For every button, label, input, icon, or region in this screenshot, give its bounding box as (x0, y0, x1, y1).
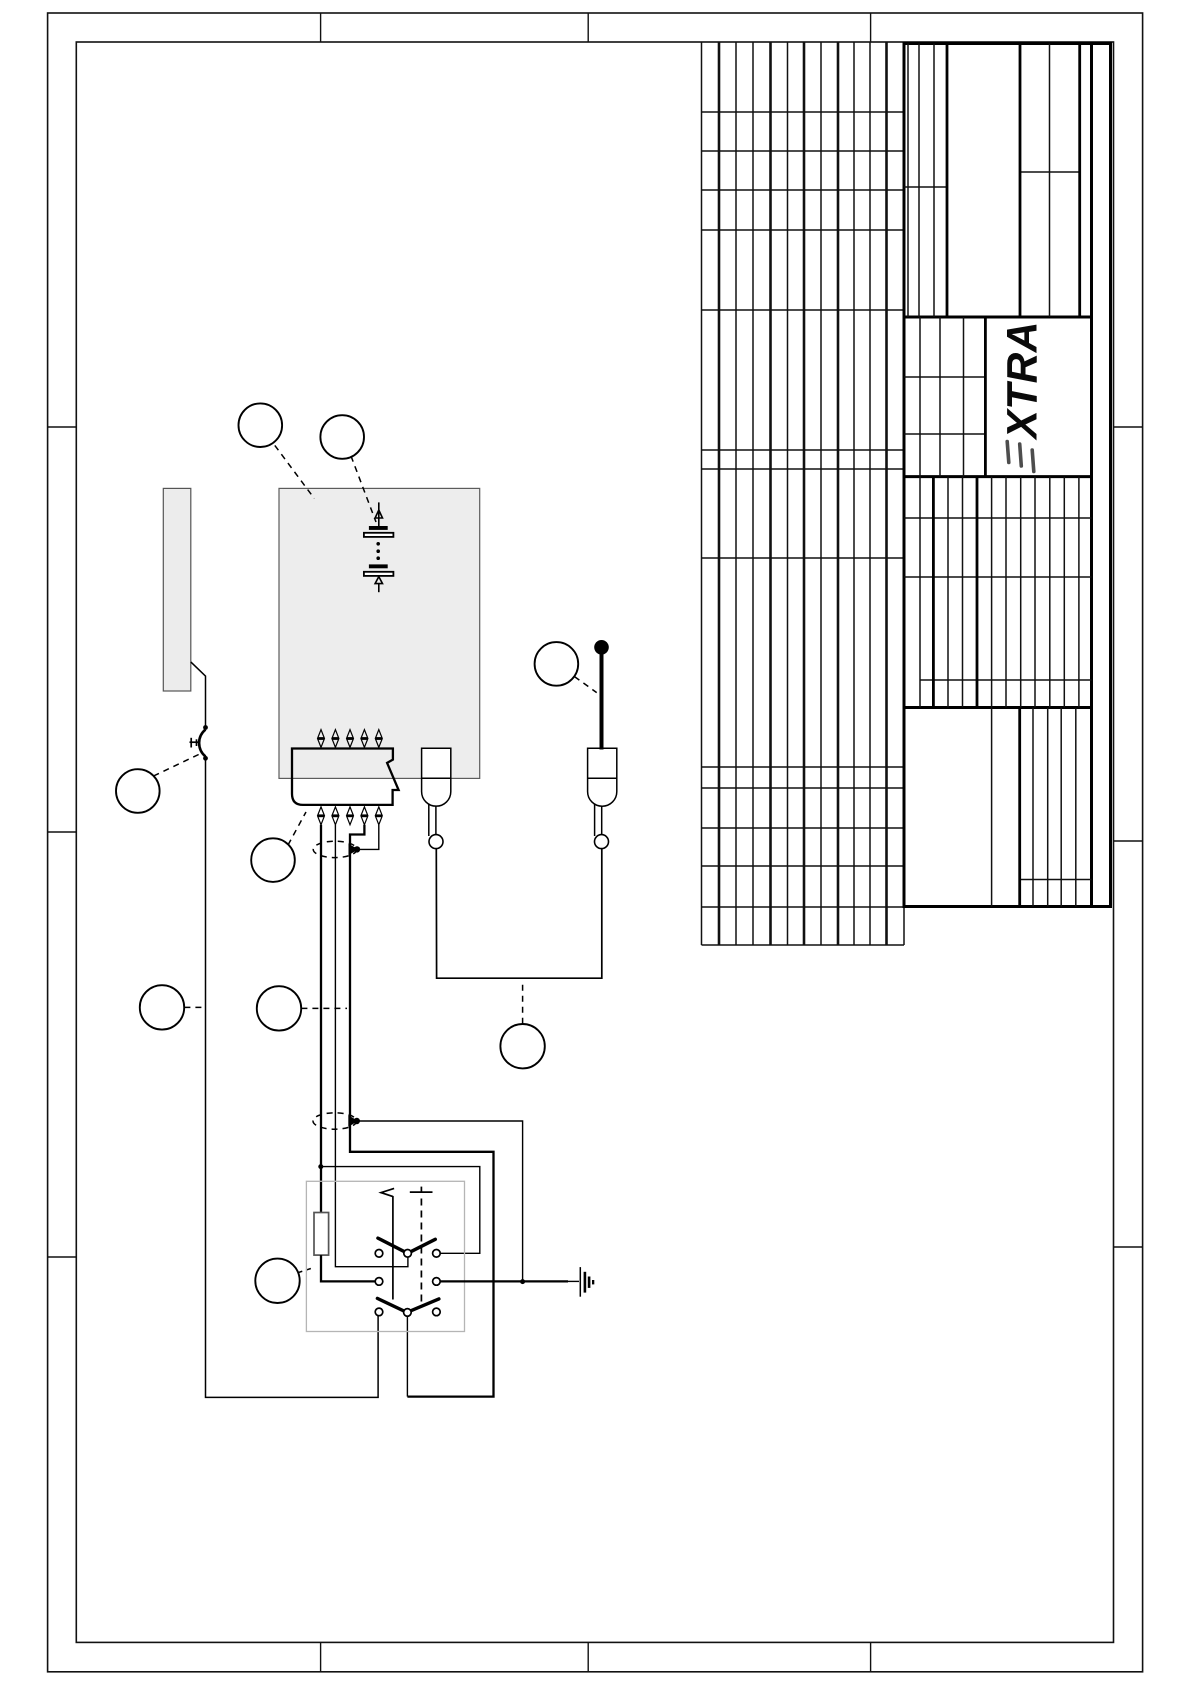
title block section 1 internals (904, 44, 1080, 318)
harness marker 2 (dashed ellipse with arrow) (313, 1113, 357, 1129)
upper lever (switch blade) (378, 1238, 435, 1253)
title block section 2 (logo section) internals (904, 317, 985, 477)
wire W1 (thick) from pin1 to resistor (320, 825, 322, 1213)
title block section 3 internals (904, 477, 1092, 708)
switch contacts (375, 1250, 440, 1317)
inner loop wire: junction to upper-right contact (321, 1167, 480, 1254)
callout circle 7 (257, 986, 301, 1030)
connector pins bottom row (318, 807, 383, 825)
wire W4: pin4 steps left then down, across and down to bottom pivot (350, 825, 494, 1397)
knob (black ball) with stem (594, 640, 609, 655)
fold marks top edge (321, 13, 871, 42)
lever switch (plunger) (190, 662, 206, 757)
title block section 4 internals (992, 708, 1092, 907)
wire: harness 2 to ground bus (358, 1121, 522, 1282)
panel (tall grey rectangle) (163, 488, 191, 691)
wiring list table : horizontal rules (702, 112, 905, 945)
callout circle 9 (255, 1259, 299, 1303)
fold marks bottom edge (321, 1642, 871, 1671)
callout circle 6 (140, 985, 184, 1029)
control module (grey rectangle) (279, 488, 480, 778)
leader 9 (298, 1268, 315, 1273)
title block internal thick vertical: right narrow strip (1090, 44, 1093, 907)
resistor (314, 1213, 329, 1256)
wire: lever switch down and along bottom to switch contact (206, 760, 379, 1397)
wire W2 (thin) pin2 to upper lever pivot (335, 825, 408, 1267)
ground symbol (579, 1267, 581, 1297)
switch actuator T-bar with dashed link (410, 1187, 433, 1303)
wire W5: pin5 to harness point (358, 825, 379, 850)
title block outer border (904, 44, 1111, 907)
callout circle 4 (116, 769, 160, 813)
switch actuator arrow (381, 1188, 394, 1299)
harness marker 1 (dashed ellipse with arrow) (313, 841, 357, 857)
XTRA logo (rotated) (1000, 321, 1047, 440)
connector block (292, 749, 399, 805)
fold marks left edge (48, 427, 77, 1257)
callout circle 5 (251, 838, 295, 882)
connector pins top row (318, 730, 383, 748)
callout circle 2 (320, 415, 364, 459)
wiring list table (rotated) : thin verticals (702, 42, 871, 946)
leader 2 (351, 456, 376, 522)
wire: resistor to middle-left contact (321, 1255, 375, 1281)
callout circle 3 (535, 642, 579, 686)
title block section dividers (thick horizontals) (904, 317, 1092, 708)
switch boundary box (grey) (306, 1181, 464, 1331)
wire: cylinder1 to loop bottom (436, 848, 602, 978)
leader 7 (301, 1007, 347, 1009)
logo triple-bar mark (1007, 442, 1034, 472)
leader 6 (184, 1006, 203, 1008)
leader 5 (288, 812, 306, 845)
junction on W1 (318, 1164, 323, 1169)
leader 8 (522, 981, 524, 1024)
callout circle 1 (238, 403, 282, 447)
callout circle 8 (500, 1024, 544, 1068)
wiring list table : thick verticals (719, 42, 887, 946)
leader 4 (154, 754, 201, 776)
leader 3 (575, 677, 597, 693)
sensor cylinder 2 (588, 748, 617, 836)
leader 1 (275, 445, 315, 498)
svg-text:XTRA: XTRA (1000, 321, 1047, 440)
sensor cylinder 1 (422, 748, 451, 836)
ground bus wire (440, 1280, 568, 1282)
lower lever (switch blade) (377, 1298, 439, 1312)
fold marks right edge (1114, 427, 1143, 1247)
spark gap symbol inside module (375, 502, 382, 527)
